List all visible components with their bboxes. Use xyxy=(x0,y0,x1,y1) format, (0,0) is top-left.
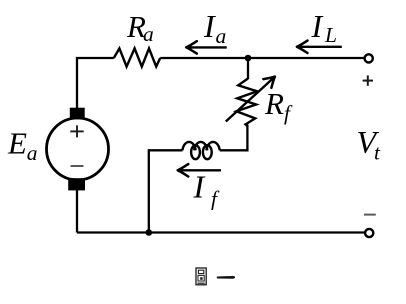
wire top-left: from armature top up and right to resistor Ra xyxy=(77,58,114,109)
svg-text:a: a xyxy=(143,22,154,46)
wire: Rf bottom to field coil corner xyxy=(220,125,248,151)
generator armature source Ea (circle) xyxy=(47,118,109,180)
inductor field coil humps xyxy=(183,142,220,159)
terminal top-right open circle xyxy=(365,54,373,62)
caption char Tu (圖) drawn as paths xyxy=(196,268,206,285)
plus sign terminal xyxy=(363,75,373,85)
minus sign terminal xyxy=(364,214,376,216)
current arrow Ia xyxy=(188,46,227,48)
svg-text:R: R xyxy=(264,86,284,121)
resistor Ra xyxy=(114,48,160,66)
wire: coil left to bottom node B xyxy=(149,150,183,232)
brush terminal bottom (filled square) xyxy=(68,178,85,190)
rheostat Rf (vertical zigzag) xyxy=(236,79,257,127)
wire bottom-left: from armature bottom down to bottom wire xyxy=(76,190,78,233)
inductor loop 1 xyxy=(191,145,200,159)
svg-text:I: I xyxy=(311,8,324,44)
brush terminal top (filled square) xyxy=(70,108,85,120)
wire bottom xyxy=(77,231,365,233)
current arrow If xyxy=(180,169,222,171)
svg-text:I: I xyxy=(193,169,206,205)
plus sign inside armature xyxy=(70,125,83,137)
wire top: from Ra to top-right terminal xyxy=(160,57,364,59)
svg-text:a: a xyxy=(27,141,38,165)
svg-text:a: a xyxy=(216,24,227,48)
rheostat arrow through Rf xyxy=(226,80,272,122)
wire: node A down to Rf xyxy=(247,58,249,79)
node B junction dot bottom xyxy=(146,229,153,236)
caption char Yi (一) xyxy=(217,276,234,278)
svg-text:L: L xyxy=(324,23,337,47)
svg-text:t: t xyxy=(374,141,381,165)
current arrow IL xyxy=(299,46,342,48)
svg-text:I: I xyxy=(203,8,216,44)
terminal bottom-right open circle xyxy=(365,229,373,237)
minus sign inside armature xyxy=(71,165,84,167)
node A junction dot top xyxy=(245,55,252,62)
inductor loop 2 xyxy=(203,145,212,159)
svg-text:E: E xyxy=(7,126,27,161)
